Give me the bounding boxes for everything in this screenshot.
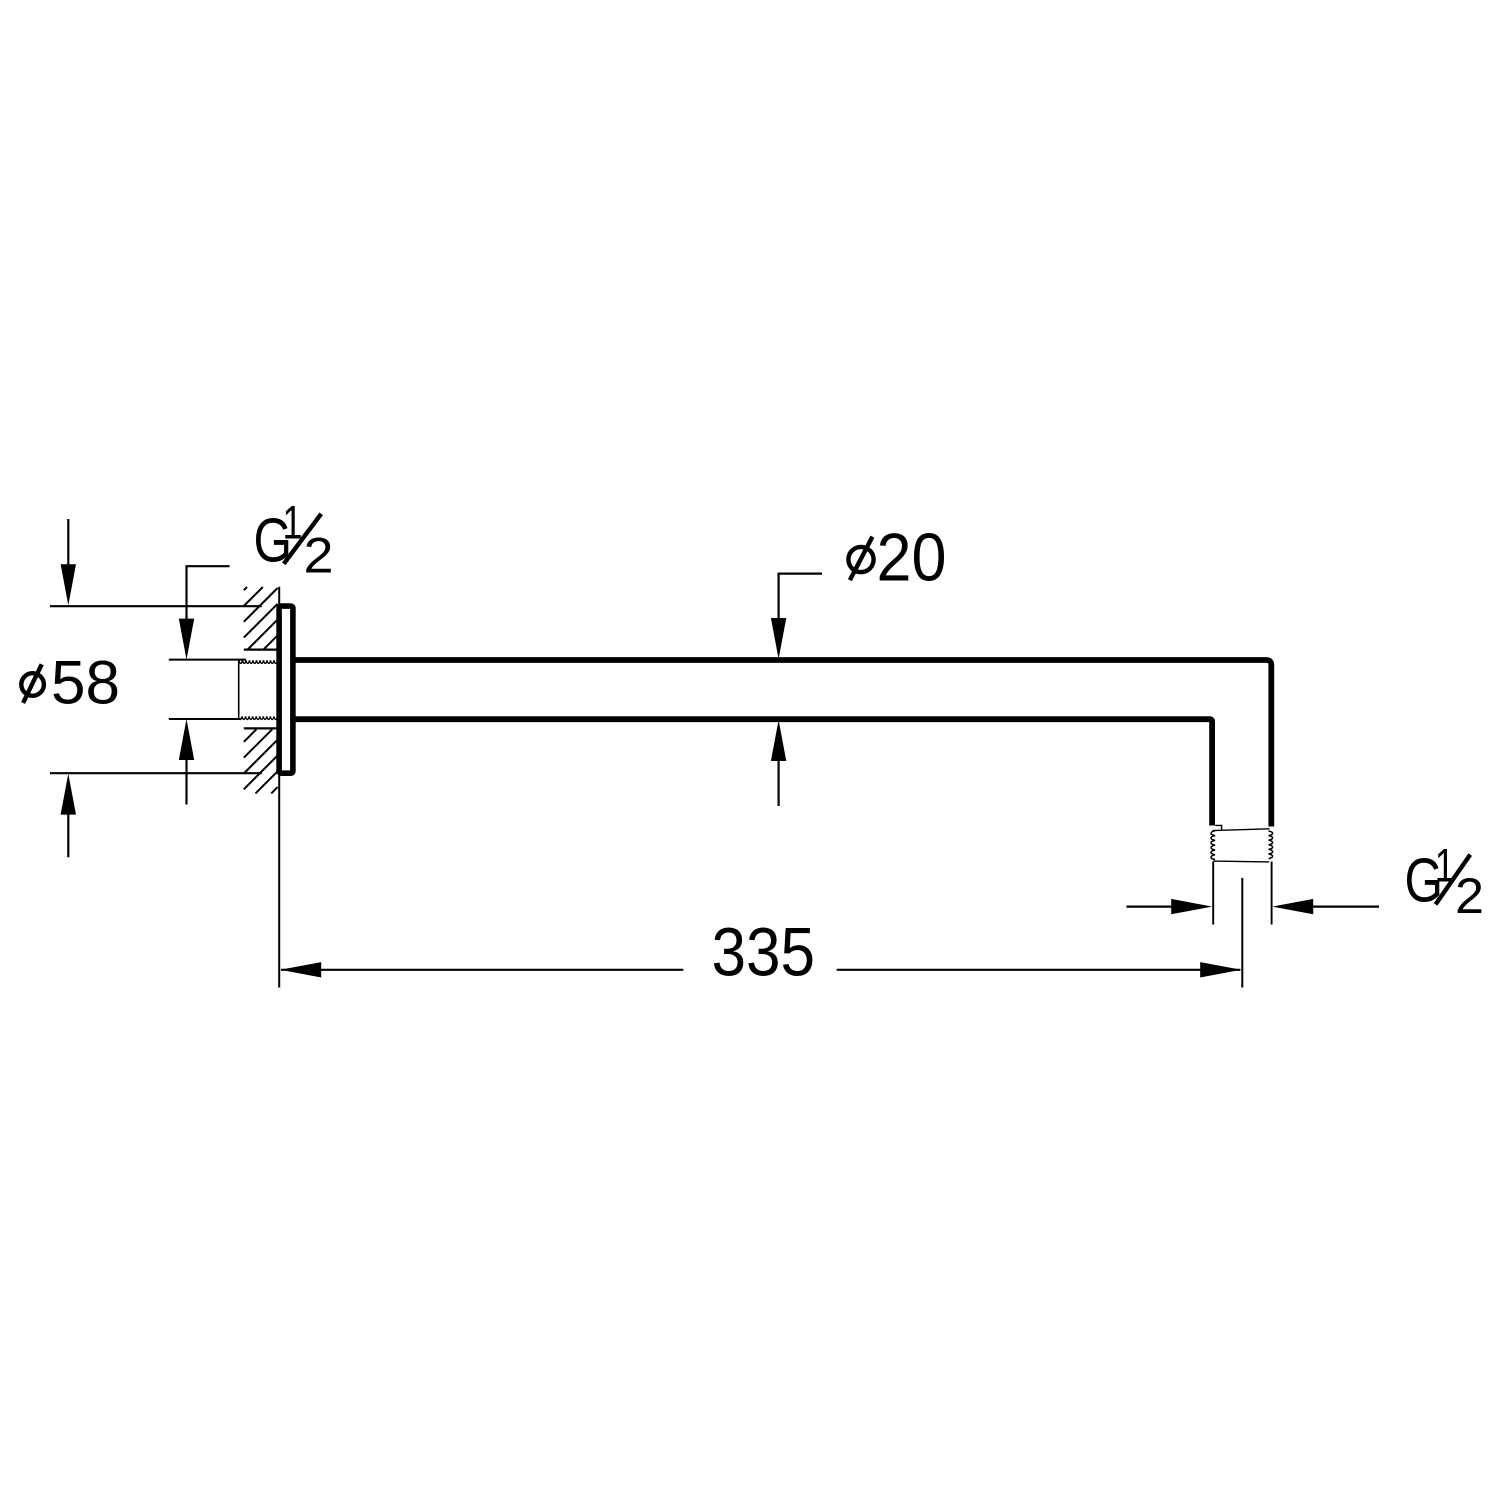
G1/2 bottom label text bbox=[1405, 839, 1485, 924]
G1/2 wall: upper arrowhead bbox=[179, 619, 194, 660]
od20 label: diameter symbol bbox=[848, 537, 873, 580]
svg-text:2: 2 bbox=[1455, 868, 1484, 924]
dimension 335: right arrowhead bbox=[1200, 962, 1241, 977]
wall thread bottom squiggle bbox=[239, 716, 278, 719]
extension line below thread, left bbox=[1212, 862, 1214, 925]
wall hole top edge bbox=[244, 648, 279, 650]
od20: lower arrow tail bbox=[777, 759, 779, 806]
extension line below thread, right bbox=[1271, 862, 1273, 925]
wall face line / left extension line for 335 bbox=[278, 587, 280, 988]
bottom G1/2: left arrowhead bbox=[1171, 899, 1212, 914]
wall hole bottom edge bbox=[244, 727, 279, 729]
bottom thread: small step notch bbox=[1215, 825, 1221, 829]
G1/2 wall: lower arrow tail bbox=[185, 758, 187, 805]
od58 label: diameter symbol bbox=[21, 664, 44, 703]
bottom G1/2: left arrow shaft bbox=[1127, 905, 1174, 907]
dimension od58: bottom extension line bbox=[50, 772, 262, 774]
od20: upper arrowhead bbox=[771, 618, 786, 659]
right extension line for 335 bbox=[1241, 878, 1243, 988]
dimension od58: top extension line bbox=[50, 605, 262, 607]
threaded pipe end inside wall bbox=[238, 660, 240, 716]
G1/2 top label text bbox=[254, 495, 334, 583]
bottom G1/2: right arrow shaft bbox=[1312, 905, 1380, 907]
shower arm horizontal pipe: bottom outline with inner elbow bbox=[292, 719, 1212, 825]
dimension od58: upper arrowhead bbox=[61, 564, 76, 605]
svg-text:58: 58 bbox=[51, 649, 120, 717]
bottom G1/2: right arrowhead bbox=[1272, 899, 1313, 914]
wall thread top squiggle bbox=[239, 660, 278, 663]
dimension od58: upper arrow tail bbox=[67, 519, 69, 566]
wall hatch bottom patch bbox=[244, 729, 278, 793]
dimension 335: left arrowhead bbox=[280, 962, 321, 977]
od20: lower arrowhead bbox=[771, 720, 786, 761]
G1/2 wall: lower arrowhead bbox=[179, 719, 194, 760]
svg-text:20: 20 bbox=[877, 520, 947, 595]
dimension od58: lower arrow tail bbox=[67, 812, 69, 857]
extension line, thread bottom at wall bbox=[169, 718, 241, 720]
extension line, thread top at wall bbox=[169, 659, 246, 661]
G1/2 top label leader bbox=[187, 566, 230, 620]
shower arm horizontal pipe: top outline with elbow down to right bbox=[292, 660, 1271, 827]
svg-text:335: 335 bbox=[712, 913, 816, 990]
svg-text:2: 2 bbox=[304, 527, 334, 583]
od20 label leader bbox=[779, 574, 822, 620]
wall hatch top patch bbox=[244, 587, 278, 650]
dimension 335: line right segment bbox=[837, 969, 1241, 971]
bottom thread: slanted start line bbox=[1212, 829, 1269, 831]
bottom thread: right coil bbox=[1269, 831, 1273, 859]
bottom thread: left coil bbox=[1211, 831, 1215, 860]
dimension 335: line left segment bbox=[281, 969, 683, 971]
bottom thread: end line bbox=[1213, 860, 1269, 863]
dimension od58: lower arrowhead bbox=[61, 774, 76, 815]
wall flange (escutcheon) bbox=[279, 606, 293, 773]
